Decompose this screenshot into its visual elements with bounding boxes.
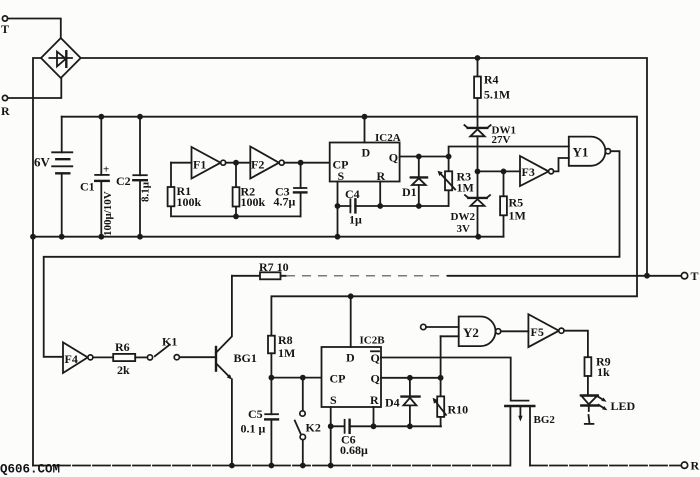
svg-text:BG2: BG2	[534, 414, 556, 426]
svg-text:1M: 1M	[509, 208, 526, 222]
svg-text:T: T	[691, 269, 699, 283]
svg-text:D1: D1	[402, 185, 417, 199]
svg-text:D: D	[362, 145, 371, 159]
svg-text:C4: C4	[345, 187, 360, 201]
svg-text:Q606.COM: Q606.COM	[0, 463, 60, 477]
svg-text:0.68μ: 0.68μ	[340, 443, 368, 457]
svg-text:+: +	[103, 164, 109, 176]
svg-text:27V: 27V	[492, 134, 511, 146]
svg-text:Y1: Y1	[573, 144, 589, 159]
svg-text:100k: 100k	[241, 195, 266, 209]
svg-text:1μ: 1μ	[349, 213, 362, 227]
svg-text:R: R	[370, 393, 379, 407]
svg-text:IC2B: IC2B	[360, 334, 386, 346]
svg-text:BG1: BG1	[234, 351, 257, 365]
svg-text:C2: C2	[116, 174, 131, 188]
svg-text:R: R	[691, 459, 700, 473]
svg-text:C5: C5	[248, 407, 263, 421]
svg-text:Q: Q	[389, 151, 398, 165]
svg-text:R10: R10	[448, 403, 469, 417]
svg-text:1M: 1M	[278, 346, 295, 360]
svg-text:F2: F2	[251, 158, 264, 172]
svg-text:R5: R5	[509, 195, 524, 209]
svg-text:100k: 100k	[177, 195, 202, 209]
svg-text:6V: 6V	[34, 155, 51, 170]
svg-text:IC2A: IC2A	[375, 132, 401, 144]
svg-text:DW2: DW2	[451, 211, 476, 223]
svg-text:D: D	[346, 350, 355, 364]
svg-text:R6: R6	[115, 340, 130, 354]
svg-text:0.1 μ: 0.1 μ	[241, 422, 266, 436]
svg-text:100μ/10V: 100μ/10V	[102, 191, 114, 236]
svg-text:Q: Q	[371, 371, 380, 385]
svg-text:R4: R4	[484, 72, 499, 86]
svg-text:5.1M: 5.1M	[484, 88, 510, 102]
svg-text:F4: F4	[65, 352, 78, 366]
svg-text:2k: 2k	[117, 363, 130, 377]
svg-text:CP: CP	[330, 371, 346, 385]
svg-text:1k: 1k	[597, 365, 610, 379]
svg-text:Q: Q	[371, 351, 380, 365]
svg-text:R8: R8	[278, 333, 293, 347]
svg-text:LED: LED	[611, 399, 636, 413]
svg-text:R: R	[1, 104, 10, 118]
svg-text:C1: C1	[80, 180, 95, 194]
svg-text:S: S	[330, 393, 337, 407]
svg-text:8.1μ: 8.1μ	[140, 181, 152, 202]
svg-text:3V: 3V	[457, 223, 471, 235]
svg-text:T: T	[1, 22, 9, 36]
svg-text:4.7μ: 4.7μ	[274, 195, 296, 209]
svg-text:R7 10: R7 10	[259, 260, 289, 274]
svg-text:D4: D4	[385, 396, 400, 410]
svg-text:F1: F1	[193, 158, 206, 172]
svg-text:S: S	[338, 169, 345, 183]
svg-text:K1: K1	[162, 335, 177, 349]
svg-text:1M: 1M	[457, 180, 474, 194]
svg-text:Y2: Y2	[463, 325, 479, 340]
svg-text:F5: F5	[531, 325, 544, 339]
svg-text:F3: F3	[522, 165, 535, 179]
svg-text:K2: K2	[306, 420, 321, 434]
